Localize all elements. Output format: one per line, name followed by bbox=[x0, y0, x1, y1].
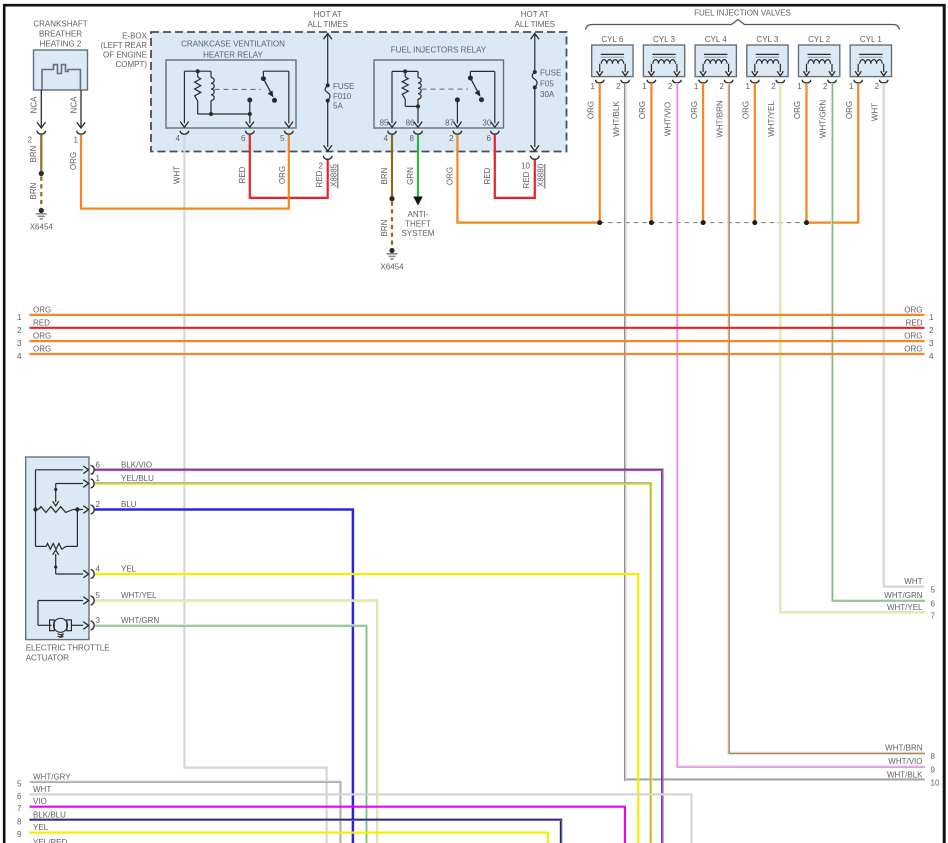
svg-text:30A: 30A bbox=[540, 90, 555, 99]
throttle pin 4 arrow and cup bbox=[83, 570, 88, 578]
svg-text:CYL 1: CYL 1 bbox=[860, 35, 882, 44]
svg-text:ORG: ORG bbox=[278, 166, 287, 184]
svg-text:BLU: BLU bbox=[121, 500, 137, 509]
svg-text:4: 4 bbox=[17, 352, 22, 361]
svg-text:ORG: ORG bbox=[33, 332, 51, 341]
svg-text:RED: RED bbox=[238, 166, 247, 183]
ORG bus dashed junction line bbox=[600, 222, 807, 224]
wire ORG CYL 6 pin 1 to bus bbox=[599, 83, 601, 223]
svg-text:E-BOX: E-BOX bbox=[122, 32, 148, 41]
svg-text:1: 1 bbox=[96, 474, 101, 483]
wire RED relay pin 6 to X8885 bbox=[250, 135, 328, 198]
CYL 6 pin cups bbox=[595, 80, 604, 83]
svg-text:HOT AT: HOT AT bbox=[314, 10, 342, 19]
svg-text:X6454: X6454 bbox=[380, 263, 404, 272]
wire WHT CYL1 pin2 to right 5 bbox=[884, 83, 925, 587]
svg-text:ORG: ORG bbox=[445, 167, 454, 185]
svg-text:2: 2 bbox=[720, 82, 725, 91]
bus line 3 ORG bbox=[30, 340, 925, 342]
svg-text:ORG: ORG bbox=[638, 101, 647, 119]
svg-text:ORG: ORG bbox=[904, 305, 922, 314]
relay pin cups bbox=[388, 131, 397, 134]
CYL 3 pin cups bbox=[647, 80, 656, 83]
wire ORG CYL 3 pin 1 to bus bbox=[754, 83, 756, 223]
svg-text:FUSE: FUSE bbox=[333, 82, 354, 91]
bus junction dot 1 bbox=[597, 220, 602, 225]
svg-text:RED: RED bbox=[315, 170, 324, 187]
throttle motor bbox=[38, 600, 83, 602]
svg-text:BLK/VIO: BLK/VIO bbox=[121, 460, 152, 469]
throttle pin 2 arrow and cup bbox=[83, 506, 88, 514]
svg-text:VIO: VIO bbox=[33, 797, 47, 806]
svg-text:2: 2 bbox=[616, 82, 621, 91]
relay switch blade bbox=[469, 71, 471, 75]
svg-text:WHT/YEL: WHT/YEL bbox=[887, 603, 923, 612]
svg-text:BRN: BRN bbox=[29, 182, 38, 199]
svg-text:F010: F010 bbox=[333, 92, 352, 101]
svg-text:NCA: NCA bbox=[30, 96, 39, 114]
svg-text:X6454: X6454 bbox=[30, 223, 54, 232]
svg-text:WHT/BLK: WHT/BLK bbox=[887, 770, 923, 779]
throttle internal potentiometer 1 bbox=[36, 469, 84, 471]
svg-text:HEATER RELAY: HEATER RELAY bbox=[203, 51, 263, 60]
svg-text:WHT/GRN: WHT/GRN bbox=[121, 616, 159, 625]
svg-text:6: 6 bbox=[487, 134, 492, 143]
throttle pin 5 arrow and cup bbox=[83, 597, 88, 605]
svg-text:RED: RED bbox=[906, 318, 923, 327]
svg-text:WHT: WHT bbox=[870, 103, 879, 121]
wire WHT relay pin 4 long run bbox=[184, 135, 326, 843]
relay coil branch pin 85 bbox=[391, 71, 393, 123]
svg-text:WHT: WHT bbox=[904, 577, 922, 586]
svg-text:ANTI-: ANTI- bbox=[408, 210, 429, 219]
svg-text:2: 2 bbox=[17, 326, 22, 335]
svg-text:8: 8 bbox=[410, 134, 415, 143]
wire WHT/BLK CYL6 pin2 to right 10 bbox=[625, 83, 924, 780]
svg-text:WHT: WHT bbox=[173, 166, 182, 184]
svg-text:2: 2 bbox=[929, 326, 934, 335]
svg-text:CYL 4: CYL 4 bbox=[705, 35, 727, 44]
svg-text:30: 30 bbox=[482, 118, 491, 127]
coil-switch dashed link bbox=[215, 88, 262, 90]
CYL 1 pin cups bbox=[854, 80, 863, 83]
svg-text:WHT/YEL: WHT/YEL bbox=[767, 101, 776, 137]
bus line 2 RED bbox=[30, 327, 925, 329]
svg-text:6: 6 bbox=[931, 599, 936, 608]
svg-text:1: 1 bbox=[849, 82, 854, 91]
svg-text:BRN: BRN bbox=[29, 145, 38, 162]
relay resistor bbox=[402, 77, 408, 99]
ground X6454 (fuel relay) bbox=[389, 248, 394, 253]
svg-text:1: 1 bbox=[74, 136, 79, 145]
heating element symbol bbox=[42, 65, 80, 90]
svg-text:FUSE: FUSE bbox=[540, 69, 561, 78]
svg-text:ORG: ORG bbox=[69, 152, 78, 170]
svg-text:2: 2 bbox=[823, 82, 828, 91]
svg-text:3: 3 bbox=[96, 616, 101, 625]
svg-text:4: 4 bbox=[384, 134, 389, 143]
svg-text:WHT/BRN: WHT/BRN bbox=[885, 744, 923, 753]
svg-text:1: 1 bbox=[642, 82, 647, 91]
relay switch feed pin 5 bbox=[263, 70, 288, 72]
svg-text:4: 4 bbox=[96, 565, 101, 574]
E-box enclosure (dashed, light blue) bbox=[151, 32, 567, 152]
svg-text:2: 2 bbox=[875, 82, 880, 91]
svg-text:85: 85 bbox=[380, 118, 389, 127]
svg-text:ALL TIMES: ALL TIMES bbox=[307, 20, 347, 29]
svg-text:ACTUATOR: ACTUATOR bbox=[26, 654, 69, 663]
svg-text:CYL 2: CYL 2 bbox=[808, 35, 830, 44]
bus line 1 ORG bbox=[30, 314, 925, 316]
svg-text:9: 9 bbox=[17, 830, 22, 839]
svg-text:BRN: BRN bbox=[380, 167, 389, 184]
coil-switch dashed link bbox=[422, 88, 469, 90]
svg-text:6: 6 bbox=[241, 134, 246, 143]
bus line 4 ORG bbox=[30, 353, 925, 355]
fuse F05 30A bbox=[533, 70, 537, 74]
svg-text:5: 5 bbox=[280, 134, 285, 143]
wire RED relay pin 30 to X8880 bbox=[495, 135, 535, 198]
wire WHT/GRN CYL2 pin2 to right 6 bbox=[832, 83, 925, 600]
svg-text:FUEL INJECTORS RELAY: FUEL INJECTORS RELAY bbox=[391, 46, 487, 55]
svg-text:3: 3 bbox=[929, 339, 934, 348]
svg-text:7: 7 bbox=[17, 804, 22, 813]
wire ORG CYL 2 pin 1 to bus bbox=[805, 83, 807, 223]
CYL 4 pin cups bbox=[699, 80, 708, 83]
component: ELECTRIC THROTTLE ACTUATOR bbox=[26, 457, 89, 640]
svg-text:RED: RED bbox=[33, 318, 50, 327]
svg-text:ORG: ORG bbox=[904, 332, 922, 341]
pin 1 lead (NCA) bbox=[80, 90, 82, 127]
svg-text:2: 2 bbox=[668, 82, 673, 91]
svg-text:ORG: ORG bbox=[690, 101, 699, 119]
svg-text:X8880: X8880 bbox=[536, 163, 545, 187]
CYL 2 pin cups bbox=[802, 80, 811, 83]
svg-text:THEFT: THEFT bbox=[405, 220, 431, 229]
svg-text:X8885: X8885 bbox=[329, 163, 338, 187]
svg-text:WHT/BLK: WHT/BLK bbox=[612, 101, 621, 137]
svg-text:ORG: ORG bbox=[845, 101, 854, 119]
wire YEL throttle pin 4 bbox=[95, 574, 638, 843]
svg-text:ORG: ORG bbox=[742, 101, 751, 119]
wire ORG relay pin 87 to injector bus bbox=[457, 135, 599, 223]
relay coil branch pin 4 bbox=[183, 71, 185, 123]
relay coil bbox=[418, 78, 421, 100]
svg-text:ORG: ORG bbox=[33, 345, 51, 354]
fuse F010 5A bbox=[326, 83, 330, 87]
svg-text:(LEFT REAR: (LEFT REAR bbox=[100, 41, 147, 50]
throttle pin 6 arrow and cup bbox=[83, 466, 88, 474]
svg-text:4: 4 bbox=[176, 134, 181, 143]
relay coil bbox=[211, 78, 214, 101]
wire ORG CYL 1 pin 1 to bus bbox=[807, 83, 859, 223]
svg-text:5: 5 bbox=[96, 591, 101, 600]
svg-text:CRANKSHAFT: CRANKSHAFT bbox=[33, 20, 87, 29]
svg-text:SYSTEM: SYSTEM bbox=[402, 229, 435, 238]
svg-text:2: 2 bbox=[771, 82, 776, 91]
svg-text:GRN: GRN bbox=[406, 167, 415, 185]
svg-text:3: 3 bbox=[17, 339, 22, 348]
relay resistor bbox=[195, 77, 201, 101]
svg-text:RED: RED bbox=[483, 167, 492, 184]
svg-text:FUEL INJECTION VALVES: FUEL INJECTION VALVES bbox=[694, 9, 791, 18]
splice dot bbox=[39, 171, 44, 176]
relay pin cups bbox=[180, 131, 189, 134]
bottom line 9 YEL bbox=[30, 833, 549, 843]
wire WHT/GRN throttle pin 3 bbox=[95, 626, 366, 843]
svg-text:ORG: ORG bbox=[904, 345, 922, 354]
pot 1 wiper from pin 1 bbox=[56, 483, 83, 485]
svg-text:YEL/RED: YEL/RED bbox=[33, 838, 67, 843]
svg-text:WHT: WHT bbox=[33, 785, 51, 794]
bottom line 6 WHT bbox=[30, 794, 692, 843]
svg-text:2: 2 bbox=[28, 136, 33, 145]
wire BRN dashed to ground bbox=[40, 177, 42, 209]
svg-text:8: 8 bbox=[931, 752, 936, 761]
svg-text:WHT/GRY: WHT/GRY bbox=[33, 772, 71, 781]
svg-text:OF ENGINE: OF ENGINE bbox=[103, 51, 147, 60]
relay switch blade bbox=[262, 71, 264, 76]
wire WHT/YEL throttle pin 5 bbox=[95, 601, 377, 843]
svg-text:BRN: BRN bbox=[380, 219, 389, 236]
svg-text:6: 6 bbox=[96, 460, 101, 469]
svg-text:1: 1 bbox=[929, 313, 934, 322]
wire YEL/BLU throttle pin 1 bbox=[95, 484, 651, 843]
svg-text:BREATHER: BREATHER bbox=[39, 30, 82, 39]
wire BLK/VIO throttle pin 6 bbox=[95, 470, 662, 843]
svg-text:WHT/VIO: WHT/VIO bbox=[664, 102, 673, 136]
svg-text:CYL 3: CYL 3 bbox=[653, 35, 675, 44]
svg-text:ELECTRIC THROTTLE: ELECTRIC THROTTLE bbox=[26, 644, 110, 653]
wire WHT/YEL CYL3 pin2 to right 7 bbox=[780, 83, 924, 612]
connector X8885 pin 2 bbox=[323, 156, 332, 160]
wire ORG CYL 3 pin 1 to bus bbox=[650, 83, 652, 223]
svg-text:WHT/BRN: WHT/BRN bbox=[715, 100, 724, 138]
svg-text:BLK/BLU: BLK/BLU bbox=[33, 810, 66, 819]
svg-text:8: 8 bbox=[17, 817, 22, 826]
connector X8880 pin 10 bbox=[530, 156, 539, 160]
svg-text:ORG: ORG bbox=[33, 305, 51, 314]
wire BRN relay pin 85 bbox=[391, 135, 393, 196]
wire WHT/BRN CYL4 pin2 to right 8 bbox=[729, 83, 925, 753]
svg-text:2: 2 bbox=[319, 162, 324, 171]
svg-text:RED: RED bbox=[522, 171, 531, 188]
svg-text:10: 10 bbox=[931, 779, 940, 788]
svg-text:86: 86 bbox=[406, 118, 415, 127]
bus junction dot 2 bbox=[649, 220, 654, 225]
svg-text:YEL: YEL bbox=[121, 565, 137, 574]
svg-text:CYL 3: CYL 3 bbox=[756, 35, 778, 44]
svg-text:5A: 5A bbox=[333, 102, 343, 111]
svg-text:WHT/GRN: WHT/GRN bbox=[884, 591, 922, 600]
bottom line 5 WHT/GRY bbox=[30, 782, 341, 843]
svg-text:1: 1 bbox=[746, 82, 751, 91]
bus junction dot 4 bbox=[752, 220, 757, 225]
throttle pin 3 arrow and cup bbox=[83, 622, 88, 630]
svg-text:1: 1 bbox=[797, 82, 802, 91]
svg-text:10: 10 bbox=[521, 162, 530, 171]
bottom line 7 VIO bbox=[30, 807, 625, 843]
relay bottom bar pin 86 bbox=[405, 105, 418, 107]
svg-text:HOT AT: HOT AT bbox=[521, 10, 549, 19]
wire BRN from pin 2 bbox=[40, 135, 42, 172]
throttle pin 1 arrow and cup bbox=[83, 480, 88, 488]
svg-text:1: 1 bbox=[694, 82, 699, 91]
bus junction dot 5 bbox=[804, 220, 809, 225]
svg-text:COMPT): COMPT) bbox=[115, 60, 147, 69]
svg-text:1: 1 bbox=[17, 313, 22, 322]
svg-text:HEATING 2: HEATING 2 bbox=[40, 40, 82, 49]
svg-text:YEL/BLU: YEL/BLU bbox=[121, 474, 154, 483]
svg-text:2: 2 bbox=[96, 500, 101, 509]
svg-text:WHT/GRN: WHT/GRN bbox=[819, 100, 828, 138]
wire GRN relay pin 86 to anti-theft bbox=[417, 135, 419, 197]
bus junction dot 3 bbox=[701, 220, 706, 225]
throttle internal potentiometer 2 bbox=[36, 545, 47, 547]
svg-text:CRANKCASE VENTILATION: CRANKCASE VENTILATION bbox=[181, 40, 285, 49]
svg-text:F05: F05 bbox=[540, 79, 554, 88]
svg-text:7: 7 bbox=[931, 611, 936, 620]
CYL 3 pin cups bbox=[751, 80, 760, 83]
svg-text:ORG: ORG bbox=[586, 101, 595, 119]
svg-text:CYL 6: CYL 6 bbox=[601, 35, 623, 44]
svg-text:NCA: NCA bbox=[70, 96, 79, 114]
wire ORG crankshaft pin 1 to relay pin 5 bbox=[81, 135, 289, 209]
svg-text:YEL: YEL bbox=[33, 823, 49, 832]
pot 2 wiper to pin 4 bbox=[53, 550, 59, 555]
wire BLU throttle pin 2 bbox=[95, 510, 353, 843]
wire WHT/VIO CYL3 pin2 to right 9 bbox=[677, 83, 925, 767]
svg-text:ORG: ORG bbox=[793, 101, 802, 119]
svg-text:5: 5 bbox=[931, 586, 936, 595]
svg-text:WHT/VIO: WHT/VIO bbox=[888, 757, 922, 766]
wire ORG CYL 4 pin 1 to bus bbox=[702, 83, 704, 223]
relay contact pin 87 bbox=[455, 97, 460, 102]
svg-text:ALL TIMES: ALL TIMES bbox=[515, 20, 555, 29]
relay contact pin 6 bbox=[247, 98, 252, 103]
svg-text:5: 5 bbox=[17, 779, 22, 788]
svg-text:2: 2 bbox=[449, 134, 454, 143]
ground X6454 bbox=[39, 208, 44, 213]
brace bbox=[586, 20, 900, 30]
svg-text:WHT/YEL: WHT/YEL bbox=[121, 591, 157, 600]
relay bottom bar bbox=[198, 113, 250, 115]
relay switch feed pin 30 bbox=[470, 70, 494, 72]
svg-text:1: 1 bbox=[590, 82, 595, 91]
bottom line 8 BLK/BLU bbox=[30, 820, 562, 843]
svg-text:87: 87 bbox=[445, 118, 454, 127]
svg-text:4: 4 bbox=[929, 352, 934, 361]
pin 2 lead (NCA) bbox=[40, 90, 42, 127]
svg-text:9: 9 bbox=[931, 766, 936, 775]
svg-text:6: 6 bbox=[17, 792, 22, 801]
